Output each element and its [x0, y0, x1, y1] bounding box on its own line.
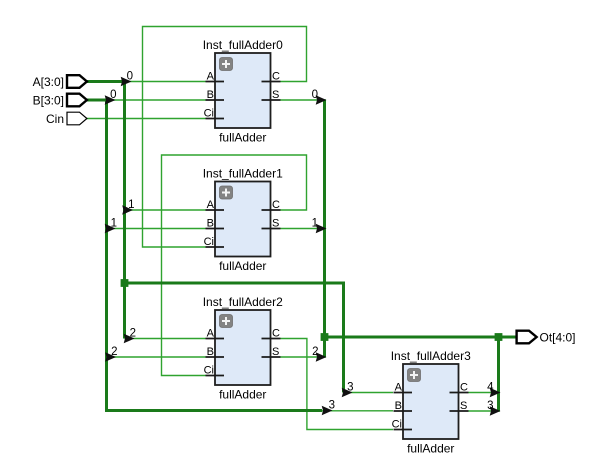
svg-text:S: S: [272, 218, 279, 230]
wire net A(3) tap to A pin of U3: [344, 392, 394, 394]
svg-text:fullAdder: fullAdder: [407, 442, 454, 456]
svg-text:Inst_fullAdder1: Inst_fullAdder1: [203, 167, 283, 181]
svg-text:Inst_fullAdder0: Inst_fullAdder0: [203, 38, 283, 52]
svg-text:fullAdder: fullAdder: [219, 131, 266, 145]
svg-text:C: C: [272, 199, 280, 211]
junction on bus A at branch to U3: [121, 279, 129, 287]
svg-text:A: A: [395, 382, 403, 394]
svg-text:Inst_fullAdder3: Inst_fullAdder3: [391, 349, 471, 363]
full adder block U1 Inst_fullAdder1: [203, 167, 283, 274]
svg-text:1: 1: [128, 199, 134, 211]
wire net A(0) bus tap to A pin of U0: [125, 81, 206, 83]
svg-text:Ci: Ci: [392, 419, 402, 431]
svg-text:B: B: [207, 346, 214, 358]
bus tap A(1): [122, 199, 134, 215]
svg-text:B[3:0]: B[3:0]: [33, 93, 64, 107]
wire net S of U0 to Ot(0) tap: [281, 99, 327, 101]
bus A[3:0] from port down left side: [87, 82, 125, 339]
svg-text:B: B: [207, 89, 214, 101]
svg-text:0: 0: [312, 89, 318, 101]
wire net B(2) tap to B pin of U2: [107, 356, 206, 358]
wire net S of U1 to Ot(1) tap: [281, 228, 327, 230]
bus tap B(1): [105, 218, 117, 234]
svg-text:0: 0: [127, 71, 133, 83]
bus tap Ot(0): [312, 89, 327, 105]
svg-text:Inst_fullAdder2: Inst_fullAdder2: [203, 295, 283, 309]
bus B[3:0] from port down and across bottom to B(3) tap: [87, 100, 322, 411]
bus tap Ot(2): [312, 346, 326, 362]
svg-text:Ci: Ci: [204, 236, 214, 248]
svg-text:1: 1: [111, 218, 117, 230]
svg-text:3: 3: [329, 400, 335, 412]
wire net A(1) tap to A pin of U1: [125, 209, 206, 211]
bus tap Ot(4): [487, 382, 500, 398]
full adder block U2 Inst_fullAdder2: [203, 295, 283, 402]
bus tap B(2): [105, 346, 117, 362]
input port Cin: [46, 112, 87, 126]
wire net B(0) bus tap to B pin of U0: [107, 99, 206, 101]
svg-text:A: A: [207, 328, 215, 340]
svg-text:A[3:0]: A[3:0]: [33, 75, 64, 89]
junction on bus Ot near output port: [495, 333, 503, 341]
svg-text:S: S: [272, 346, 279, 358]
svg-text:A: A: [207, 199, 215, 211]
svg-text:B: B: [207, 218, 214, 230]
svg-text:B: B: [395, 400, 402, 412]
svg-text:3: 3: [347, 382, 353, 394]
svg-text:Cin: Cin: [46, 112, 64, 126]
wire net C of U3 to Ot(4) tap: [469, 392, 501, 394]
svg-text:fullAdder: fullAdder: [219, 259, 266, 273]
wire net A(2) tap to A pin of U2: [125, 338, 206, 340]
svg-text:3: 3: [487, 400, 493, 412]
svg-text:Ot[4:0]: Ot[4:0]: [540, 330, 576, 344]
wire net S of U2 to Ot(2) tap: [281, 356, 327, 358]
svg-text:2: 2: [130, 328, 136, 340]
svg-text:C: C: [460, 382, 468, 394]
svg-text:Ci: Ci: [204, 365, 214, 377]
svg-text:0: 0: [110, 89, 116, 101]
bus tap Ot(3): [487, 400, 500, 416]
output port Ot[4:0]: [517, 330, 576, 344]
wire net carry C of U1 to Ci of U2: [162, 155, 307, 376]
bus tap A(0): [121, 71, 133, 87]
wire net B(1) tap to B pin of U1: [107, 228, 206, 230]
svg-text:C: C: [272, 71, 280, 83]
wire net carry C of U2 to Ci of U3: [281, 339, 394, 430]
wire net Cin to Ci of U0: [87, 118, 206, 120]
svg-text:2: 2: [312, 346, 318, 358]
bus Ot[4:0] main horizontal to output port: [325, 336, 517, 339]
svg-text:1: 1: [312, 218, 318, 230]
full adder block U0 Inst_fullAdder0: [203, 38, 283, 145]
svg-text:Ci: Ci: [204, 108, 214, 120]
svg-text:4: 4: [487, 382, 494, 394]
svg-text:2: 2: [111, 346, 117, 358]
full adder block U3 Inst_fullAdder3: [391, 349, 471, 456]
input port A[3:0]: [33, 75, 87, 89]
wire net S of U3 to Ot(3) tap: [469, 410, 501, 412]
svg-text:S: S: [272, 89, 279, 101]
bus Ot[4:0] vertical collecting S0 S1 S2: [323, 100, 326, 357]
bus tap B(0): [105, 89, 117, 105]
junction on bus Ot at main horizontal: [321, 333, 329, 341]
bus Ot[4:0] vertical collecting C3 S3: [497, 337, 500, 411]
svg-text:S: S: [460, 400, 467, 412]
svg-text:fullAdder: fullAdder: [219, 388, 266, 402]
wire net B(3) tap to B pin of U3: [322, 410, 393, 412]
svg-text:C: C: [272, 328, 280, 340]
bus tap Ot(1): [312, 218, 327, 234]
input port B[3:0]: [33, 93, 87, 107]
bus tap B(3): [322, 400, 335, 416]
bus tap A(2): [124, 328, 136, 344]
wire net carry C of U0 to Ci of U1: [143, 27, 307, 248]
bus A[3:0] branch across to A(3) tap: [125, 283, 344, 393]
svg-text:A: A: [207, 71, 215, 83]
bus tap A(3): [342, 382, 354, 398]
